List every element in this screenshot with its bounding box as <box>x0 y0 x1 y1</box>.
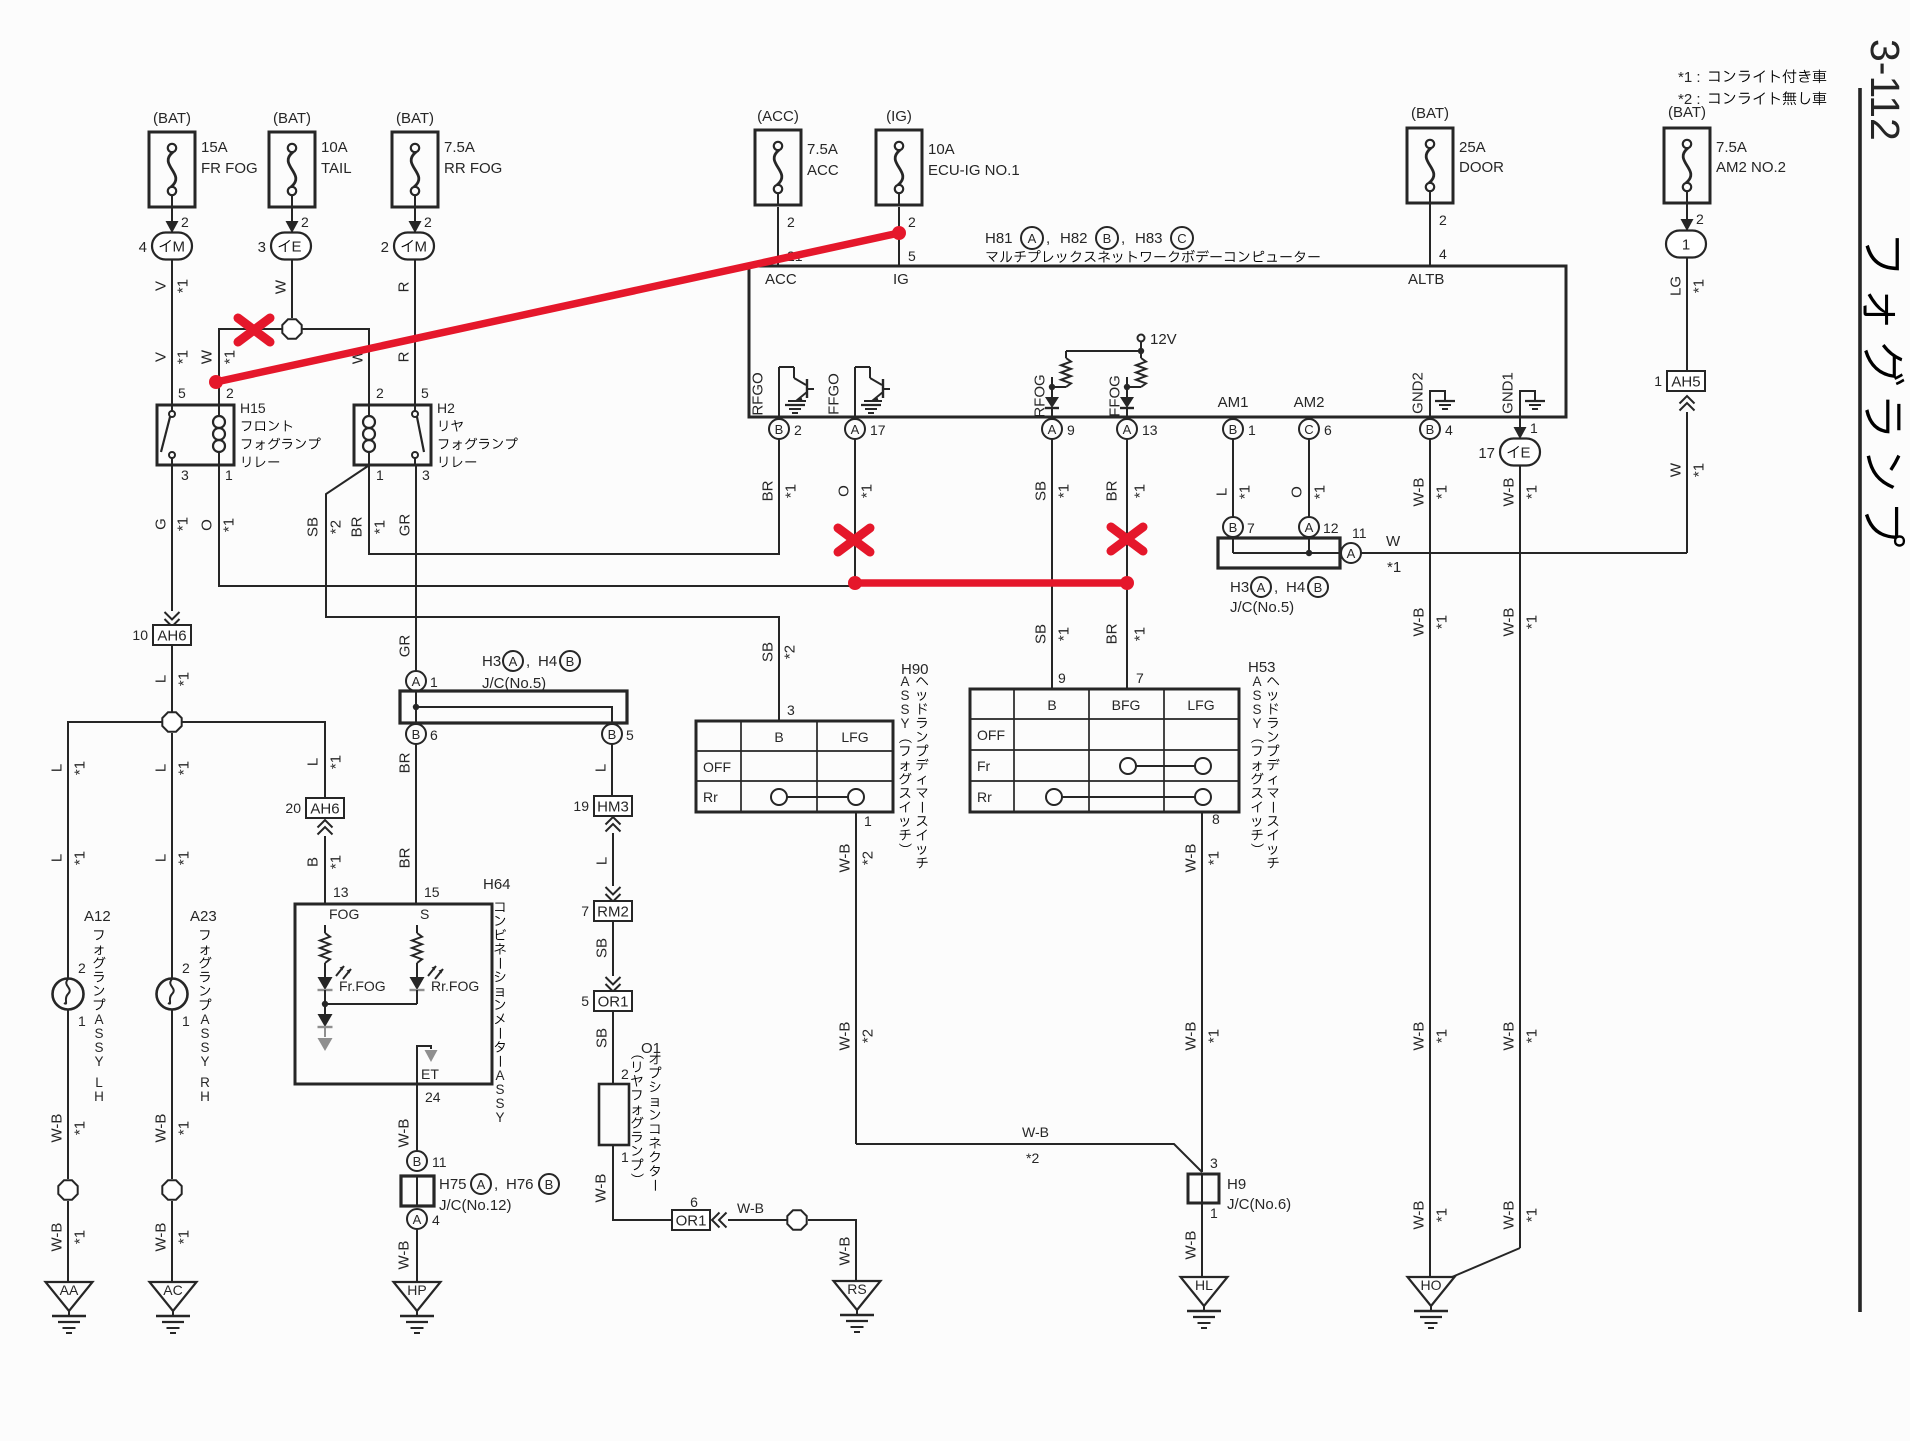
svg-text:B: B <box>1229 520 1238 535</box>
wire fuse DOOR to ECU pin 4 ALTB <box>1430 204 1447 266</box>
svg-text:20: 20 <box>285 800 301 816</box>
connector 1 oval <box>1666 231 1706 258</box>
svg-text:Y: Y <box>1252 716 1261 731</box>
svg-text:*1: *1 <box>1387 559 1401 576</box>
svg-text:1: 1 <box>182 1013 190 1029</box>
meter internal ground ET <box>417 1046 439 1084</box>
svg-text:BFG: BFG <box>1112 697 1141 713</box>
ECU pin B4 <box>1420 419 1453 439</box>
connector 6 OR1 <box>672 1194 727 1230</box>
svg-text:12: 12 <box>1323 520 1339 536</box>
svg-text:L: L <box>49 764 66 772</box>
svg-text:B: B <box>775 422 784 437</box>
wire W connector イE to junction <box>273 260 293 318</box>
svg-text:ALTB: ALTB <box>1408 271 1444 288</box>
wire L connector HM3 to connector 7 RM2 <box>594 833 621 902</box>
svg-text:LG: LG <box>1668 276 1685 296</box>
svg-text:S: S <box>420 906 429 922</box>
svg-text:DOOR: DOOR <box>1459 159 1504 176</box>
svg-text:2: 2 <box>182 960 190 976</box>
svg-text:FFOG: FFOG <box>1107 375 1124 417</box>
fog lamp A12 LH <box>53 908 111 1104</box>
svg-text:B: B <box>305 857 322 867</box>
resistor FFOG pull-up <box>1127 351 1146 387</box>
svg-text:AH6: AH6 <box>157 627 186 644</box>
svg-text:FR FOG: FR FOG <box>201 160 258 177</box>
svg-text:V: V <box>153 352 170 362</box>
svg-text:W-B: W-B <box>593 1174 610 1203</box>
svg-text:(BAT): (BAT) <box>153 110 191 127</box>
svg-text:,: , <box>494 1176 498 1193</box>
svg-text:AM2: AM2 <box>1294 394 1325 411</box>
svg-text:H3: H3 <box>482 653 501 670</box>
svg-text:GR: GR <box>397 635 414 658</box>
wire W-B connector OR1 to junction <box>728 1200 787 1220</box>
svg-text:FFGO: FFGO <box>826 373 843 415</box>
svg-text:*2: *2 <box>860 851 877 865</box>
svg-text:J/C(No.6): J/C(No.6) <box>1227 1196 1291 1213</box>
connector 10 AH6 <box>132 625 191 645</box>
ground AA <box>46 1282 93 1333</box>
resistor meter FOG lamp <box>320 925 330 977</box>
wire O*1 relay H15 pin 1 to ECU A17 <box>199 439 876 586</box>
svg-text:2: 2 <box>181 214 189 230</box>
junction block H3 H4 J/C No.5 <box>400 651 627 723</box>
svg-text:AA: AA <box>60 1282 79 1298</box>
diode FFOG <box>1107 375 1135 417</box>
svg-text:A: A <box>413 1212 422 1227</box>
ground AC <box>150 1282 197 1333</box>
connector 17 イE <box>1478 439 1540 466</box>
connector 5 OR1 <box>581 991 632 1011</box>
svg-text:H: H <box>200 1089 210 1104</box>
svg-text:W: W <box>199 349 216 364</box>
svg-text:7.5A: 7.5A <box>444 139 475 156</box>
wire W junction to relay H2 pin 2 coil <box>302 329 384 405</box>
svg-text:3: 3 <box>181 467 189 483</box>
svg-text:Y: Y <box>900 716 909 731</box>
wire W-B*1 switch H53 pin 8 to junction connector H9 <box>1183 811 1223 1172</box>
junction connector A12 <box>1299 517 1339 537</box>
svg-text:A: A <box>1252 674 1261 689</box>
svg-text:RFGO: RFGO <box>750 372 767 415</box>
svg-text:A: A <box>1305 520 1314 535</box>
svg-text:6: 6 <box>1324 422 1332 438</box>
svg-text:2: 2 <box>381 239 389 256</box>
connector 1 AH5 <box>1654 371 1705 391</box>
svg-text:AH6: AH6 <box>310 800 339 817</box>
switch H90 headlamp dimmer fog switch <box>696 661 929 868</box>
svg-text:L: L <box>153 854 170 862</box>
svg-text:IG: IG <box>893 271 909 288</box>
svg-text:RFOG: RFOG <box>1032 374 1049 417</box>
ECU internal ground GND1 <box>1500 372 1546 417</box>
ECU pin B1 AM1 <box>1218 394 1256 439</box>
svg-text:AM2 NO.2: AM2 NO.2 <box>1716 159 1786 176</box>
wire SB connector RM2 to connector 5 OR1 <box>594 921 621 992</box>
transistor output RFGO <box>750 367 815 417</box>
svg-text:*1: *1 <box>1524 1208 1541 1222</box>
svg-text:1: 1 <box>621 1149 629 1165</box>
transistor output FFGO <box>826 367 891 417</box>
svg-text:*1: *1 <box>1312 485 1329 499</box>
svg-text:W-B: W-B <box>1183 1231 1200 1260</box>
svg-text:2: 2 <box>794 422 802 438</box>
wire LG*1 connector to junction AH5 <box>1668 258 1708 370</box>
svg-text:ET: ET <box>421 1066 439 1082</box>
svg-text:W: W <box>273 279 290 294</box>
svg-text:HO: HO <box>1421 1277 1442 1293</box>
svg-text:E: E <box>1521 445 1531 462</box>
annotation red cross on FFOG wire <box>1111 527 1143 551</box>
svg-text:SB: SB <box>594 938 611 958</box>
svg-text:1: 1 <box>376 467 384 483</box>
svg-text:L: L <box>95 1075 103 1090</box>
svg-text:*1: *1 <box>1206 1029 1223 1043</box>
svg-text:A: A <box>851 422 860 437</box>
svg-text:*1: *1 <box>176 761 193 775</box>
svg-text:*1: *1 <box>176 1121 193 1135</box>
ground HL <box>1181 1277 1228 1328</box>
ECU pin C6 AM2 <box>1294 394 1332 439</box>
diode RFOG <box>1032 374 1060 417</box>
svg-text:10: 10 <box>132 627 148 643</box>
svg-text:B: B <box>1229 422 1238 437</box>
svg-text:Fr: Fr <box>977 758 991 774</box>
svg-text:B: B <box>566 654 575 669</box>
svg-text:4: 4 <box>139 239 147 256</box>
svg-text:2: 2 <box>376 385 384 401</box>
svg-text:S: S <box>94 1026 103 1041</box>
svg-text:A: A <box>1347 546 1356 561</box>
svg-text:A: A <box>900 674 909 689</box>
svg-text:3: 3 <box>1210 1155 1218 1171</box>
svg-text:J/C(No.5): J/C(No.5) <box>482 675 546 692</box>
wire W-B*2 switch H90 pin 1 to junction connector H9 <box>837 812 1203 1172</box>
svg-text:SB: SB <box>594 1028 611 1048</box>
wire SB connector OR1 to option connector pin 2 <box>594 1011 630 1084</box>
svg-text:W-B: W-B <box>153 1223 170 1252</box>
svg-text:B: B <box>1314 580 1323 595</box>
svg-text:2: 2 <box>226 385 234 401</box>
indicator LED Fr.FOG <box>318 966 386 1007</box>
svg-text:7: 7 <box>1247 520 1255 536</box>
svg-text:(IG): (IG) <box>886 108 912 125</box>
svg-text:S: S <box>200 1026 209 1041</box>
wire BR junction B6 to meter pin 15 <box>397 744 440 904</box>
svg-text:1: 1 <box>1530 420 1538 436</box>
svg-text:Y: Y <box>495 1110 504 1125</box>
svg-text:A: A <box>509 654 518 669</box>
svg-text:A12: A12 <box>84 908 111 925</box>
svg-text:W-B: W-B <box>1183 1022 1200 1051</box>
fuse 7.5A RR FOG <box>392 110 502 207</box>
svg-text:*2: *2 <box>860 1029 877 1043</box>
svg-text:SB: SB <box>1033 481 1050 501</box>
svg-text:O: O <box>836 485 853 497</box>
svg-text:*2: *2 <box>1026 1150 1039 1166</box>
svg-text:*1: *1 <box>176 851 193 865</box>
svg-text:H2: H2 <box>437 400 455 416</box>
svg-text:RR FOG: RR FOG <box>444 160 502 177</box>
fog lamp A23 RH <box>157 908 217 1104</box>
wire W-B junction A4 to ground HP <box>396 1229 418 1282</box>
ECU pin A17 <box>845 419 886 439</box>
svg-text:(BAT): (BAT) <box>1411 105 1449 122</box>
svg-text:W-B: W-B <box>1411 478 1428 507</box>
ECU pin B2 <box>769 419 802 439</box>
svg-text:,: , <box>1121 230 1125 247</box>
svg-text:L: L <box>153 764 170 772</box>
svg-text:W-B: W-B <box>153 1114 170 1143</box>
svg-text:*1: *1 <box>1691 463 1708 477</box>
svg-text:5: 5 <box>178 385 186 401</box>
svg-text:1: 1 <box>1248 422 1256 438</box>
svg-text:2: 2 <box>1696 211 1704 227</box>
svg-text:J/C(No.12): J/C(No.12) <box>439 1197 512 1214</box>
svg-text:HL: HL <box>1195 1277 1213 1293</box>
wire L junction B5 to connector 19 HM3 <box>593 744 613 799</box>
svg-text:*1: *1 <box>859 484 876 498</box>
svg-text:,: , <box>1046 230 1050 247</box>
svg-text:W-B: W-B <box>837 1237 854 1266</box>
svg-text:15A: 15A <box>201 139 228 156</box>
svg-text:OFF: OFF <box>703 759 731 775</box>
svg-text:7.5A: 7.5A <box>807 141 838 158</box>
svg-text:*1: *1 <box>1056 627 1073 641</box>
svg-text:B: B <box>774 729 783 745</box>
resistor meter S lamp <box>412 925 422 977</box>
svg-text:13: 13 <box>1142 422 1158 438</box>
svg-text:H: H <box>94 1089 104 1104</box>
svg-text:J/C(No.5): J/C(No.5) <box>1230 599 1294 616</box>
svg-text:HM3: HM3 <box>597 798 629 815</box>
note *2 コンライト無し車 <box>1678 91 1826 108</box>
svg-text:H9: H9 <box>1227 1176 1246 1193</box>
svg-text:*1: *1 <box>176 1230 193 1244</box>
svg-text:AC: AC <box>163 1282 182 1298</box>
svg-text:10A: 10A <box>928 141 955 158</box>
svg-text:W-B: W-B <box>1022 1124 1049 1140</box>
svg-text:A: A <box>1048 422 1057 437</box>
ECU pin A9 <box>1042 419 1075 439</box>
svg-text:LFG: LFG <box>1187 697 1214 713</box>
junction connector B7 <box>1223 517 1255 537</box>
wire W-B*1 connector 17 イE to ground HO <box>1452 465 1541 1277</box>
wire W-B*1 ECU B4 to ground HO <box>1411 439 1451 1277</box>
svg-text:Y: Y <box>94 1054 103 1069</box>
svg-text:H83: H83 <box>1135 230 1163 247</box>
svg-text:W-B: W-B <box>1411 1022 1428 1051</box>
svg-text:10A: 10A <box>321 139 348 156</box>
svg-text:*1: *1 <box>1206 851 1223 865</box>
wire fuse AM2 NO.2 pin 2 to connector 1 <box>1681 203 1705 231</box>
svg-text:*1: *1 <box>176 672 193 686</box>
svg-text:O: O <box>199 519 216 531</box>
svg-text:1: 1 <box>78 1013 86 1029</box>
page sidebar rule <box>1858 88 1862 1312</box>
svg-text:S: S <box>200 1040 209 1055</box>
wire fuse ECU-IG to ECU pin 5 <box>899 207 916 266</box>
svg-text:7: 7 <box>581 903 589 919</box>
fuse 7.5A AM2 NO.2 <box>1664 104 1786 203</box>
svg-text:FOG: FOG <box>329 906 359 922</box>
svg-text:H4: H4 <box>538 653 557 670</box>
svg-text:BR: BR <box>397 752 414 773</box>
wire L*1 junction to fog lamp RH <box>153 733 193 979</box>
svg-text:B: B <box>412 727 421 742</box>
wire L*1 junction to connector 20 AH6 <box>182 722 345 798</box>
svg-text:*1: *1 <box>1132 484 1149 498</box>
svg-text:BR: BR <box>397 847 414 868</box>
svg-text:R: R <box>200 1075 210 1090</box>
junction connector A1 <box>406 671 438 691</box>
svg-text:*1: *1 <box>1524 1029 1541 1043</box>
svg-text:H64: H64 <box>483 876 511 893</box>
svg-text:OR1: OR1 <box>598 993 629 1010</box>
relay H15 front fog lamp relay <box>157 400 321 483</box>
svg-text:*1: *1 <box>1524 485 1541 499</box>
svg-text:*1: *1 <box>372 520 389 534</box>
svg-text:GND1: GND1 <box>1500 372 1517 414</box>
connector 3 イE <box>258 233 311 260</box>
svg-text:S: S <box>1252 688 1261 703</box>
wire BR*1 ECU A13 to switch H53 pin 7 <box>1104 439 1149 689</box>
svg-text:*1: *1 <box>72 761 89 775</box>
svg-text:BR: BR <box>760 480 777 501</box>
wire L*1 junction to fog lamp LH <box>49 722 163 979</box>
svg-text:C: C <box>1177 231 1186 246</box>
wire fuse ACC to ECU pin 21 <box>778 207 803 266</box>
svg-text:SB: SB <box>760 642 777 662</box>
svg-text:*1: *1 <box>1524 615 1541 629</box>
connector 7 RM2 <box>581 901 632 921</box>
svg-text:H76: H76 <box>506 1176 534 1193</box>
svg-text:W-B: W-B <box>49 1114 66 1143</box>
wire meter LED cathodes joined <box>325 1003 417 1005</box>
svg-text:*1: *1 <box>1434 485 1451 499</box>
svg-text:GND2: GND2 <box>1410 372 1427 414</box>
svg-text:A: A <box>477 1177 486 1192</box>
svg-text:Rr: Rr <box>977 789 992 805</box>
connector 4 イM <box>139 233 192 260</box>
junction connector A4 <box>407 1209 440 1229</box>
svg-text:W: W <box>1386 533 1401 550</box>
svg-text:B: B <box>1426 422 1435 437</box>
svg-text:W-B: W-B <box>396 1119 413 1148</box>
svg-text:*1: *1 <box>175 279 192 293</box>
svg-text:*1: *1 <box>1237 485 1254 499</box>
svg-text:*2: *2 <box>328 520 345 534</box>
svg-text:W-B: W-B <box>1411 608 1428 637</box>
page title フォグランプ <box>1864 238 1906 547</box>
svg-text:2: 2 <box>424 214 432 230</box>
svg-text:Fr.FOG: Fr.FOG <box>339 978 386 994</box>
wire GR relay H2 pin 3 to junction connector A1 <box>397 465 417 671</box>
wire W-B*1 fog lamp RH to ground AC <box>153 1009 193 1282</box>
svg-text:ACC: ACC <box>765 271 797 288</box>
wire W*1 junction to relay H15 pin 2 coil <box>199 329 283 405</box>
svg-text:ECU-IG NO.1: ECU-IG NO.1 <box>928 162 1020 179</box>
svg-text:19: 19 <box>573 798 589 814</box>
connector 2 イM <box>381 233 434 260</box>
junction connector A11 <box>1341 525 1367 563</box>
svg-text:4: 4 <box>1445 422 1453 438</box>
junction block H75 H76 J/C No.12 <box>401 1174 559 1214</box>
svg-text:7.5A: 7.5A <box>1716 139 1747 156</box>
page number 3-112 <box>1862 39 1908 141</box>
svg-text:*1: *1 <box>175 350 192 364</box>
connector 19 HM3 <box>573 796 632 832</box>
svg-text:3: 3 <box>422 467 430 483</box>
option connector O1 rear fog lamp <box>599 1040 661 1191</box>
svg-text:(ACC): (ACC) <box>757 108 799 125</box>
svg-text:BR: BR <box>1104 623 1121 644</box>
svg-text:7: 7 <box>1136 670 1144 686</box>
svg-text:A: A <box>1028 231 1037 246</box>
wire fuse TAIL pin 2 to connector 3 イE <box>286 207 310 233</box>
svg-text:RM2: RM2 <box>597 903 629 920</box>
resistor RFOG pull-up <box>1051 351 1071 387</box>
svg-text:C: C <box>1304 422 1313 437</box>
svg-text:24: 24 <box>425 1089 441 1105</box>
svg-text:2: 2 <box>78 960 86 976</box>
junction TAIL feed <box>282 319 301 338</box>
combination meter H64 ASSY <box>295 876 511 1125</box>
svg-text:A: A <box>495 1068 504 1083</box>
svg-text:W-B: W-B <box>1411 1201 1428 1230</box>
svg-text:A: A <box>1257 580 1266 595</box>
svg-text:A: A <box>1123 422 1132 437</box>
svg-text:S: S <box>495 1082 504 1097</box>
svg-text:11: 11 <box>1352 525 1367 541</box>
wire V*1 connector イM to relay H15 pin 5 <box>153 260 192 405</box>
svg-text:11: 11 <box>432 1154 447 1170</box>
wire W-B*1 fog lamp LH to ground AA <box>49 1009 89 1282</box>
fuse 10A TAIL <box>269 110 352 207</box>
svg-text:1: 1 <box>864 813 872 829</box>
svg-text:W-B: W-B <box>396 1241 413 1270</box>
svg-text:W-B: W-B <box>737 1200 764 1216</box>
svg-text:S: S <box>900 688 909 703</box>
svg-text:S: S <box>94 1040 103 1055</box>
svg-text:3: 3 <box>258 239 266 256</box>
svg-text:*1: *1 <box>72 851 89 865</box>
indicator LED Rr.FOG <box>410 966 480 1004</box>
svg-text:B: B <box>1047 697 1056 713</box>
svg-text:*1: *1 <box>1132 627 1149 641</box>
svg-text:*1: *1 <box>1434 1208 1451 1222</box>
svg-text:17: 17 <box>870 422 886 438</box>
svg-text:W-B: W-B <box>1501 1022 1518 1051</box>
fuse 7.5A ACC <box>755 108 839 205</box>
svg-text:G: G <box>153 518 170 530</box>
svg-text:W-B: W-B <box>1501 1201 1518 1230</box>
svg-text:A: A <box>94 1012 103 1027</box>
svg-text:Rr.FOG: Rr.FOG <box>431 978 479 994</box>
svg-text:R: R <box>396 351 413 362</box>
svg-text:6: 6 <box>690 1194 698 1210</box>
svg-text:1: 1 <box>1654 373 1662 389</box>
svg-text:H75: H75 <box>439 1176 467 1193</box>
svg-text:*1: *1 <box>1434 615 1451 629</box>
junction fog lamp feed <box>162 712 181 731</box>
ECU H81 H82 H83 multiplex network body computer <box>749 227 1566 417</box>
svg-text:E: E <box>292 239 302 256</box>
annotation red jumper fuse IG to relay wire <box>209 226 906 389</box>
svg-text:12V: 12V <box>1150 331 1177 348</box>
svg-text:L: L <box>305 758 322 766</box>
